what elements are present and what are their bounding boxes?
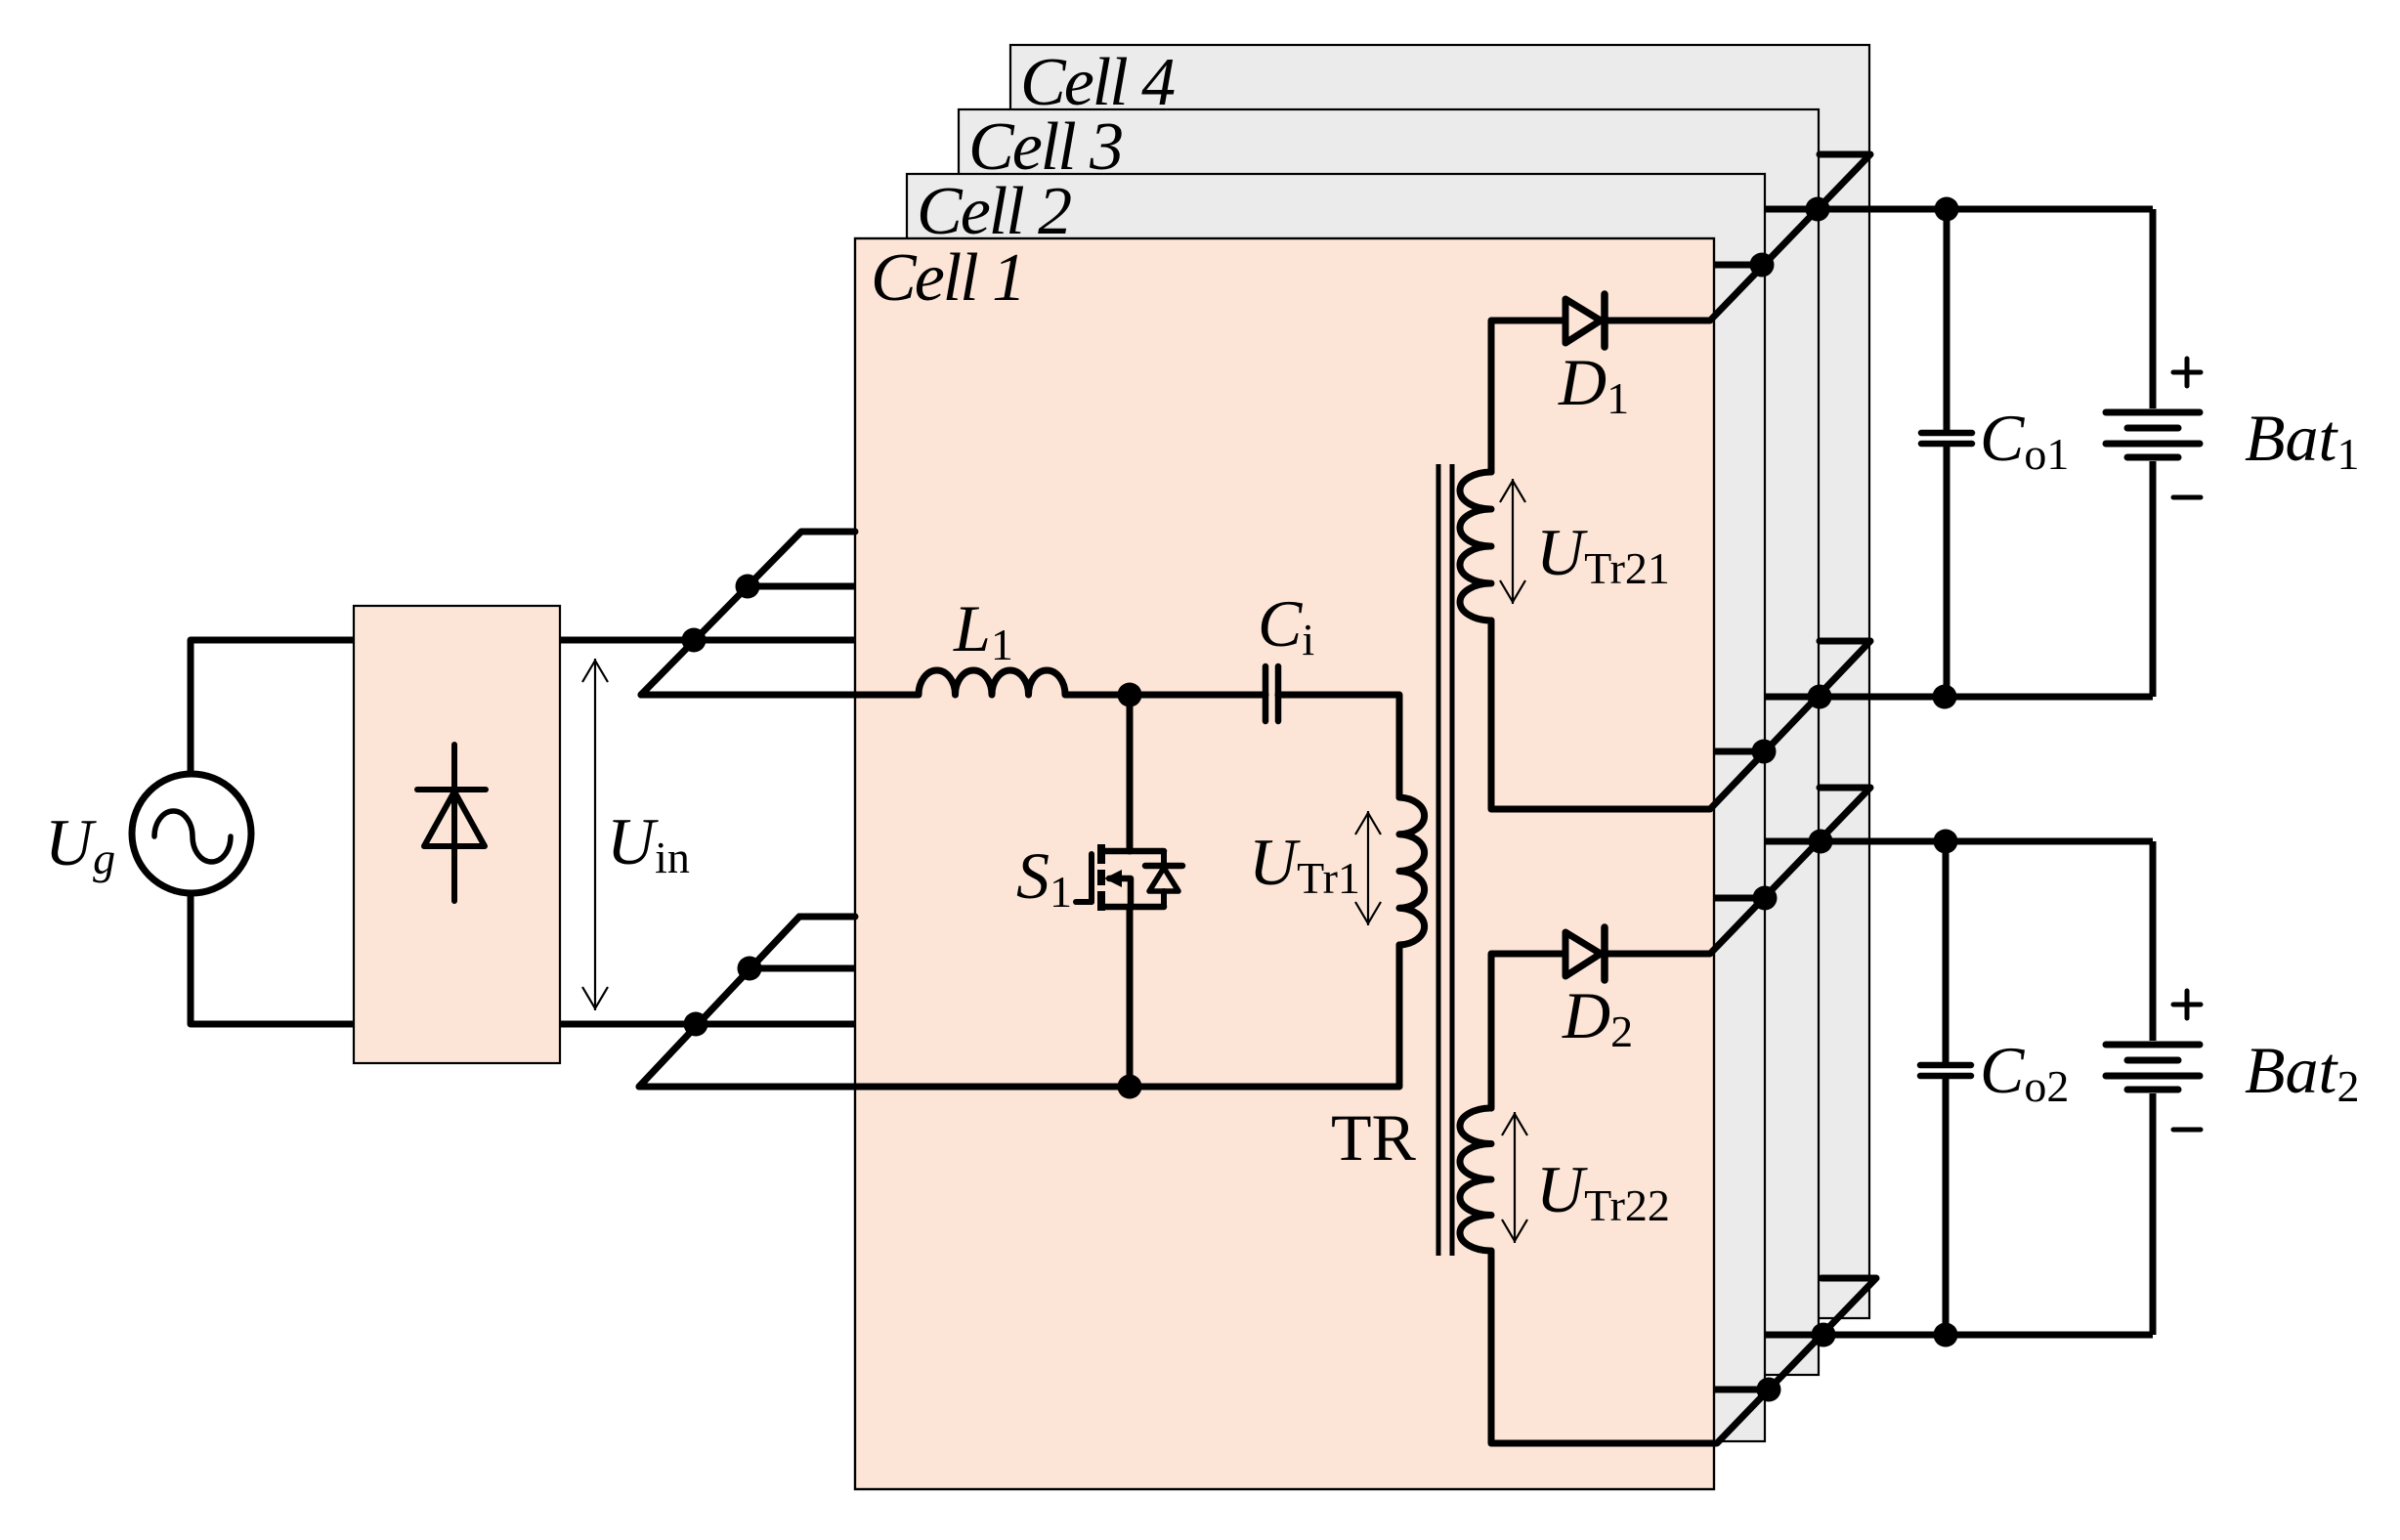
cell 3 block bbox=[959, 109, 1819, 1375]
node out1- b bbox=[1808, 685, 1832, 709]
capacitor Co1 bbox=[1944, 209, 1950, 430]
wire UTr22 bottom diagonal bbox=[1491, 1251, 1876, 1443]
wire Ci to primary bbox=[1278, 695, 1399, 797]
label Bat2 plus bbox=[2173, 1003, 2201, 1007]
wire cell1 stub out1+ bbox=[1714, 262, 1762, 269]
diode D2 bbox=[1565, 932, 1601, 976]
transformer core bbox=[1436, 464, 1441, 1256]
node out2- a bbox=[1757, 1378, 1781, 1402]
wire rect bottom out bbox=[560, 1021, 855, 1028]
rectifier diode bbox=[451, 745, 457, 901]
diode D1 bbox=[1565, 299, 1601, 343]
arrow UTr22 bbox=[1514, 1112, 1516, 1243]
bus Bat2+ bbox=[1765, 838, 2153, 845]
node bottom in 1 bbox=[684, 1012, 708, 1037]
svg-text:Bat1: Bat1 bbox=[2245, 401, 2359, 479]
node out2+ a bbox=[1753, 886, 1778, 911]
wire cell1 stub out1- bbox=[1714, 749, 1764, 755]
wire S1 drain bbox=[1127, 695, 1134, 851]
wire UTr21 top to D1 bbox=[1491, 321, 1565, 472]
wire bottom rail bbox=[639, 917, 1399, 1087]
label Bat2 minus bbox=[2173, 1128, 2201, 1133]
wire Ug bottom bbox=[191, 893, 354, 1024]
node out1+ b bbox=[1806, 197, 1830, 222]
svg-text:Bat2: Bat2 bbox=[2245, 1033, 2359, 1111]
wire cell1 stub out2- bbox=[1714, 1387, 1769, 1393]
wire Ug top bbox=[191, 640, 354, 774]
svg-text:Cell 1: Cell 1 bbox=[871, 240, 1024, 316]
node out1- c bbox=[1933, 685, 1957, 709]
wire cell1 stub out2+ bbox=[1714, 895, 1765, 902]
svg-text:TR: TR bbox=[1331, 1100, 1417, 1175]
node out1+ a bbox=[1750, 253, 1775, 278]
arrow Uin bbox=[594, 659, 596, 1010]
node out2- b bbox=[1812, 1323, 1836, 1347]
inductor L1 bbox=[641, 670, 1265, 695]
transformer secondary winding UTr21 bbox=[1460, 472, 1491, 620]
node out1+ c bbox=[1935, 197, 1959, 222]
arrow UTr1 bbox=[1367, 811, 1369, 925]
label Bat1 minus bbox=[2173, 495, 2201, 500]
wire bottom stub cell3 bbox=[750, 965, 855, 972]
cell 2 block bbox=[907, 174, 1765, 1441]
wire top branch diagonal bbox=[641, 532, 855, 695]
wire D1 out diagonal bbox=[1605, 154, 1870, 321]
wire S1 source bbox=[1127, 907, 1134, 1087]
node top in 2 bbox=[736, 575, 760, 599]
wire UTr22 top to D2 bbox=[1491, 954, 1565, 1108]
wire D2 out diagonal bbox=[1605, 788, 1870, 954]
bus Bat1- bbox=[1765, 694, 2153, 701]
svg-text:Co2: Co2 bbox=[1980, 1033, 2069, 1111]
svg-text:Co1: Co1 bbox=[1980, 401, 2069, 479]
rectifier block bbox=[354, 606, 560, 1063]
transformer secondary winding UTr22 bbox=[1460, 1108, 1491, 1251]
bus Bat2- bbox=[1765, 1332, 2153, 1339]
bus Bat1+ bbox=[1765, 206, 2153, 213]
node out2- c bbox=[1934, 1323, 1958, 1347]
arrow UTr21 bbox=[1512, 479, 1514, 604]
wire bottom branch diagonal bbox=[639, 917, 855, 1087]
transformer primary winding UTr1 bbox=[1399, 797, 1425, 945]
node out2+ c bbox=[1934, 830, 1958, 854]
node L1/S1 junction bbox=[1118, 683, 1142, 707]
wire top stub cell3 bbox=[748, 583, 855, 590]
battery Bat1 bbox=[2150, 209, 2157, 408]
node out1- a bbox=[1752, 740, 1777, 764]
source Ug circle bbox=[132, 774, 251, 893]
cell 1 block bbox=[855, 238, 1714, 1489]
node bottom rail junction bbox=[1118, 1075, 1142, 1099]
capacitor Ci plates bbox=[1263, 666, 1269, 721]
source Ug sine bbox=[154, 811, 231, 862]
svg-text:Ug: Ug bbox=[45, 805, 115, 883]
node top in 1 bbox=[682, 628, 707, 653]
wire rect top out bbox=[560, 637, 855, 644]
node out2+ b bbox=[1809, 830, 1833, 854]
svg-text:Uin: Uin bbox=[607, 804, 690, 882]
transistor S1 bbox=[1097, 844, 1105, 864]
cell 4 block bbox=[1010, 45, 1869, 1318]
svg-text:Cell 2: Cell 2 bbox=[917, 174, 1071, 249]
node bottom in 2 bbox=[738, 957, 762, 981]
wire UTr21 bottom diagonal bbox=[1491, 620, 1870, 809]
capacitor Co2 bbox=[1943, 841, 1950, 1062]
battery Bat2 bbox=[2150, 841, 2157, 1041]
label Bat1 plus bbox=[2173, 370, 2201, 375]
